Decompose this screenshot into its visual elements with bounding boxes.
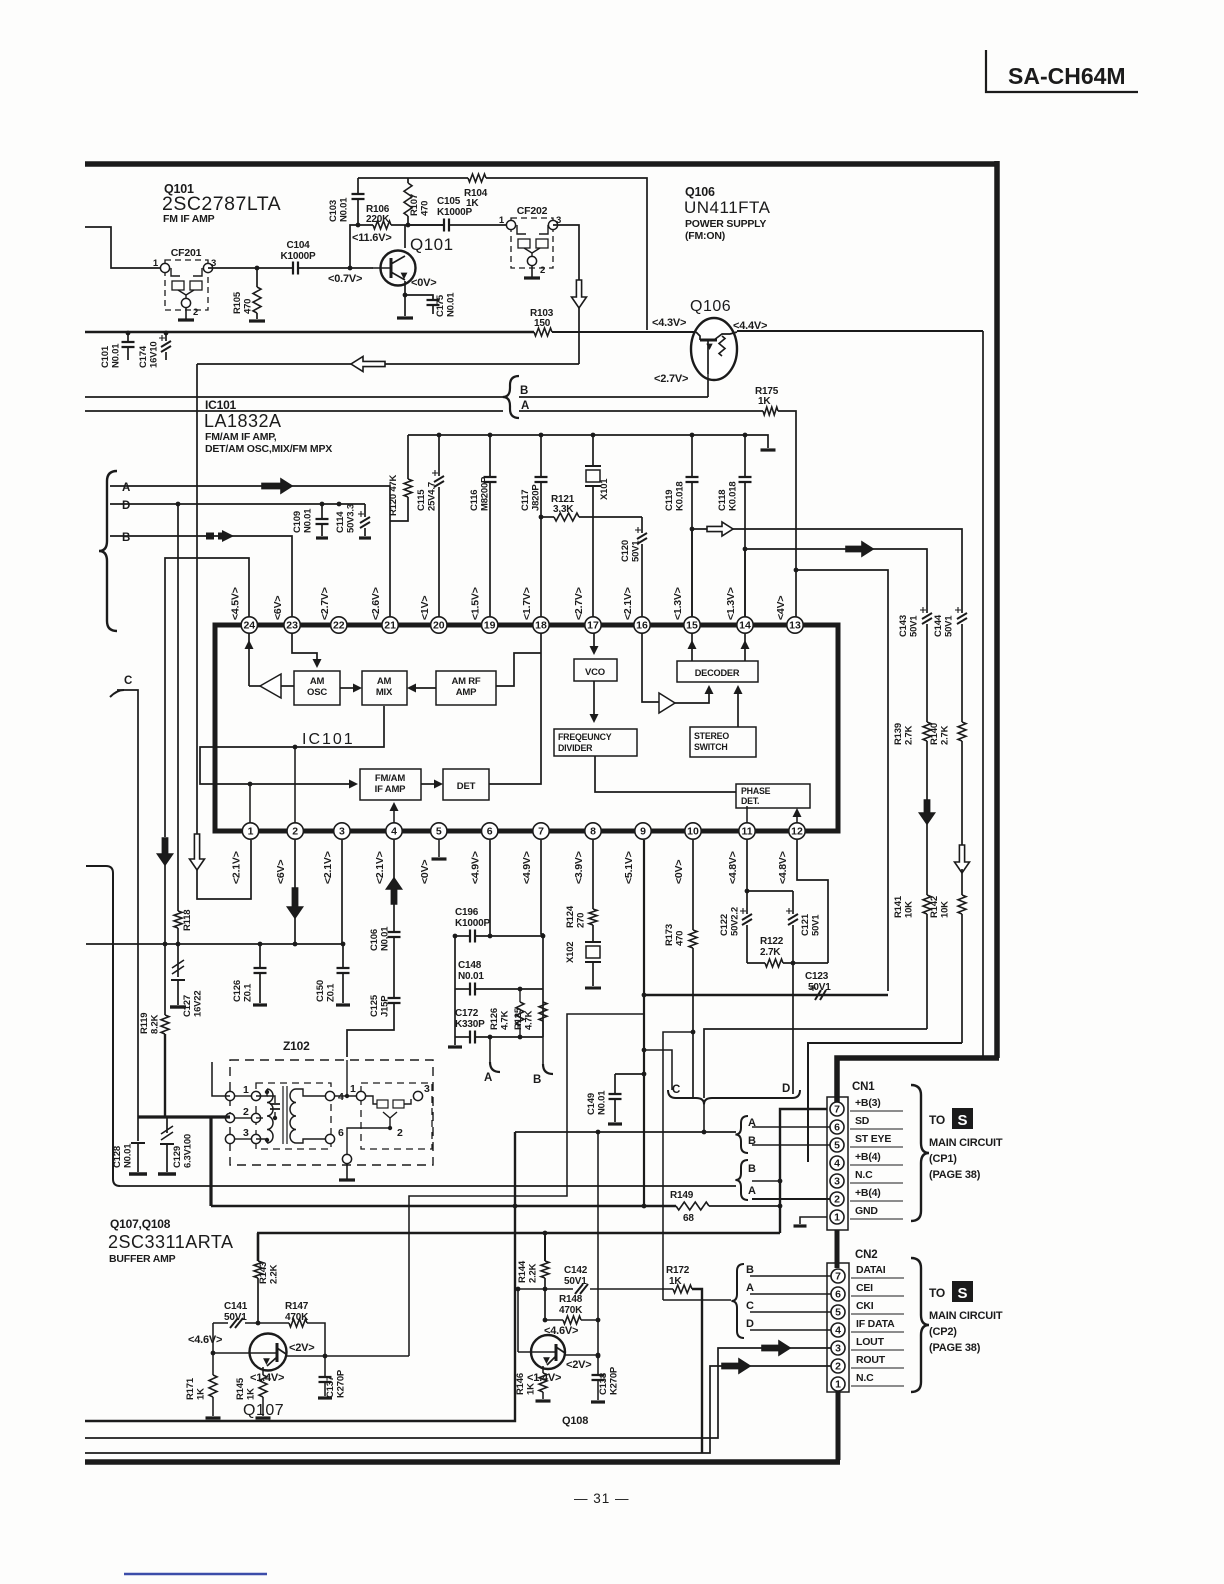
svg-text:<4.6V>: <4.6V> bbox=[188, 1334, 222, 1346]
svg-text:C148: C148 bbox=[458, 960, 482, 971]
svg-text:A: A bbox=[748, 1185, 756, 1197]
wire line A right bbox=[519, 410, 763, 412]
capacitor C125 bbox=[347, 994, 401, 1057]
ic pin 21 bbox=[382, 617, 398, 633]
svg-text:<1.4V>: <1.4V> bbox=[250, 1372, 284, 1384]
wire AM MIX to pin2 bbox=[294, 747, 296, 823]
label pin 9 voltage bbox=[623, 851, 635, 884]
label page number bbox=[574, 1491, 630, 1506]
svg-text:4: 4 bbox=[338, 1091, 344, 1103]
svg-text:50V1: 50V1 bbox=[811, 914, 822, 936]
svg-text:<2.6V>: <2.6V> bbox=[370, 587, 382, 620]
brace B A bbox=[503, 376, 519, 418]
svg-text:FM/AM IF AMP,: FM/AM IF AMP, bbox=[205, 431, 277, 443]
ic pin 10 bbox=[685, 823, 701, 839]
svg-text:C: C bbox=[124, 675, 132, 687]
capacitor C138 bbox=[591, 1354, 620, 1402]
label pin 11 voltage bbox=[727, 851, 739, 884]
svg-text:<2.1V>: <2.1V> bbox=[622, 587, 634, 620]
svg-text:Q106: Q106 bbox=[690, 298, 731, 315]
transformer Z102 label bbox=[283, 1039, 310, 1053]
transistor Q107 bbox=[213, 1334, 287, 1371]
label TO S 1 bbox=[929, 1108, 973, 1129]
svg-text:R120 47K: R120 47K bbox=[388, 474, 399, 516]
svg-text:6: 6 bbox=[834, 1122, 840, 1134]
wire R175 down to pin13 node bbox=[778, 411, 796, 570]
svg-text:D: D bbox=[782, 1083, 790, 1095]
resistor R173 bbox=[664, 924, 697, 948]
svg-text:CF202: CF202 bbox=[517, 205, 548, 217]
label pin 14 voltage bbox=[725, 587, 737, 620]
wire CN1 B line bbox=[752, 1144, 830, 1146]
decor blue underline bbox=[124, 1573, 267, 1575]
svg-text:TO: TO bbox=[929, 1113, 945, 1127]
svg-text:UN411FTA: UN411FTA bbox=[684, 198, 771, 217]
svg-text:CN1: CN1 bbox=[852, 1081, 875, 1093]
resistor R171 bbox=[185, 1323, 221, 1418]
svg-text:<0V>: <0V> bbox=[419, 860, 431, 884]
svg-text:<1.5V>: <1.5V> bbox=[470, 587, 482, 620]
resistor R122 bbox=[747, 936, 828, 967]
label pin 10 voltage bbox=[673, 860, 685, 884]
svg-text:<1.7V>: <1.7V> bbox=[521, 587, 533, 620]
svg-text:K1000P: K1000P bbox=[455, 918, 490, 929]
wire VCO to freq divider bbox=[590, 681, 599, 723]
ic pin 17 bbox=[585, 617, 601, 633]
connector CN2 box bbox=[827, 1263, 849, 1392]
wire line B2 bbox=[110, 530, 292, 617]
svg-text:CF201: CF201 bbox=[171, 247, 202, 259]
svg-text:<4.5V>: <4.5V> bbox=[229, 587, 241, 620]
svg-text:(CP1): (CP1) bbox=[929, 1153, 957, 1165]
resistor R141 bbox=[893, 895, 931, 1029]
wire CN1 CN2 link bbox=[835, 1230, 840, 1268]
block STEREO SWITCH bbox=[690, 727, 756, 757]
svg-text:N0.01: N0.01 bbox=[303, 508, 314, 533]
label 4.3V bbox=[652, 317, 686, 329]
svg-text:N0.01: N0.01 bbox=[458, 971, 484, 982]
svg-text:FM/AM: FM/AM bbox=[375, 773, 405, 784]
block AM OSC bbox=[281, 671, 340, 705]
label CN1 +B(3) bbox=[850, 1097, 903, 1111]
brace CN1 AB1 bbox=[735, 1116, 756, 1153]
svg-text:ST EYE: ST EYE bbox=[855, 1133, 891, 1145]
svg-text:15: 15 bbox=[686, 620, 698, 632]
svg-text:C109: C109 bbox=[292, 511, 303, 533]
arrow pin24 line down bbox=[158, 838, 173, 865]
ic pin 11 bbox=[739, 823, 755, 839]
label Q107 2V bbox=[289, 1342, 315, 1354]
label MAIN CIRCUIT 2 bbox=[929, 1310, 1003, 1322]
transformer Z102 secondary box bbox=[361, 1083, 432, 1149]
wire C104 to Q101 base bbox=[298, 266, 373, 271]
wire emitter branch down bbox=[982, 331, 984, 1058]
label Q101 bbox=[410, 235, 454, 254]
svg-text:2: 2 bbox=[397, 1127, 403, 1139]
svg-text:Z102: Z102 bbox=[283, 1039, 310, 1053]
resistor R124 bbox=[565, 905, 597, 928]
transformer Z102 coil1 bbox=[256, 1086, 287, 1144]
svg-text:14: 14 bbox=[739, 620, 751, 632]
label Q107 bbox=[243, 1402, 284, 1419]
capacitor C101 bbox=[100, 331, 135, 368]
svg-text:4.7K: 4.7K bbox=[524, 1010, 535, 1030]
wire pin10 branch bbox=[663, 1032, 693, 1300]
label CN1 ST EYE bbox=[850, 1133, 903, 1147]
wire top heavy border bbox=[85, 161, 997, 167]
svg-text:<4.8V>: <4.8V> bbox=[727, 851, 739, 884]
label pin 2 voltage bbox=[275, 860, 287, 884]
capacitor C118 bbox=[717, 435, 752, 617]
wire C hook up bbox=[642, 1048, 672, 1090]
svg-text:2.2K: 2.2K bbox=[528, 1263, 539, 1283]
label 4.4V bbox=[733, 320, 767, 332]
svg-text:(PAGE 38): (PAGE 38) bbox=[929, 1169, 981, 1181]
svg-text:R171: R171 bbox=[185, 1377, 196, 1400]
svg-text:D: D bbox=[746, 1318, 754, 1330]
capacitor C142 bbox=[518, 1265, 663, 1294]
crystal X101 bbox=[585, 435, 610, 617]
svg-text:2.7K: 2.7K bbox=[940, 725, 951, 745]
wire Q106 base down bbox=[707, 380, 709, 397]
svg-text:10: 10 bbox=[687, 826, 699, 838]
svg-text:CEI: CEI bbox=[856, 1282, 873, 1294]
ground CF202 pin2 bbox=[524, 266, 540, 278]
svg-text:3: 3 bbox=[339, 826, 345, 838]
connector CN1 pin 1 bbox=[830, 1210, 844, 1224]
svg-text:3.3K: 3.3K bbox=[553, 504, 574, 515]
transformer Z102 coil2 bbox=[290, 1089, 344, 1144]
resistor R105 bbox=[232, 268, 265, 321]
wire DET right bbox=[489, 633, 541, 784]
svg-text:IC101: IC101 bbox=[205, 398, 237, 412]
capacitor C103 bbox=[328, 178, 365, 225]
wire pin11 down bbox=[745, 840, 750, 893]
svg-text:50V1: 50V1 bbox=[808, 982, 831, 993]
svg-text:C150: C150 bbox=[315, 980, 326, 1002]
svg-text:AMP: AMP bbox=[456, 687, 477, 698]
svg-text:C149: C149 bbox=[586, 1093, 597, 1115]
svg-text:C174: C174 bbox=[138, 345, 149, 368]
wire line A bbox=[110, 479, 390, 617]
capacitor C117 bbox=[520, 435, 548, 617]
svg-text:50V1: 50V1 bbox=[224, 1312, 247, 1323]
svg-text:50V1: 50V1 bbox=[909, 615, 920, 637]
wire pin11 to phase det bbox=[746, 806, 748, 823]
svg-text:DATAI: DATAI bbox=[856, 1264, 886, 1276]
wire base bias bbox=[350, 225, 373, 268]
svg-text:<11.6V>: <11.6V> bbox=[352, 232, 392, 244]
svg-text:SA-CH64M: SA-CH64M bbox=[1008, 63, 1126, 89]
svg-text:2: 2 bbox=[540, 265, 545, 276]
svg-text:C116: C116 bbox=[469, 490, 480, 511]
capacitor C144 bbox=[933, 607, 967, 722]
wire pin9 down bbox=[642, 840, 647, 1208]
wire ROUT feed bbox=[85, 1366, 831, 1453]
transistor Q101 header part bbox=[162, 193, 281, 215]
svg-text:R147: R147 bbox=[285, 1301, 309, 1312]
wire pin12 jog bbox=[797, 840, 828, 963]
svg-text:MAIN CIRCUIT: MAIN CIRCUIT bbox=[929, 1137, 1003, 1149]
capacitor C149 bbox=[586, 1074, 622, 1124]
arrow signal down bbox=[572, 280, 587, 308]
block PHASE DET bbox=[736, 784, 810, 808]
ic pin 19 bbox=[482, 617, 498, 633]
wire R172 to ROUT col bbox=[692, 1289, 702, 1453]
svg-text:<2.7V>: <2.7V> bbox=[654, 373, 688, 385]
connector CN2 pin 4 bbox=[831, 1323, 845, 1337]
svg-text:1K: 1K bbox=[526, 1383, 537, 1395]
resistor R172 bbox=[663, 1265, 692, 1293]
svg-text:68: 68 bbox=[683, 1213, 694, 1224]
svg-text:R107: R107 bbox=[409, 194, 420, 216]
svg-text:C129: C129 bbox=[172, 1146, 183, 1168]
svg-text:N0.01: N0.01 bbox=[446, 292, 457, 317]
resistor R146 bbox=[515, 1366, 551, 1401]
wire freq divider to phase det bbox=[595, 756, 736, 792]
ic pin 7 bbox=[533, 823, 549, 839]
label pin 18 voltage bbox=[521, 587, 533, 620]
ic IC101 header fn1 bbox=[205, 431, 277, 443]
wire line B right bbox=[519, 396, 708, 398]
capacitor C122 bbox=[719, 891, 752, 963]
wire pin6 down bbox=[489, 840, 491, 936]
resistor R148 bbox=[545, 1294, 600, 1324]
svg-text:2.7K: 2.7K bbox=[760, 947, 781, 958]
resistor R126 bbox=[489, 987, 524, 1040]
wire right heavy border bbox=[994, 161, 1000, 1058]
resistor R142 bbox=[929, 895, 966, 1043]
transistor Q106 header mode bbox=[685, 230, 725, 242]
svg-text:6: 6 bbox=[338, 1127, 344, 1139]
svg-text:C141: C141 bbox=[224, 1301, 248, 1312]
svg-text:R119: R119 bbox=[139, 1013, 150, 1034]
svg-text:1K: 1K bbox=[246, 1388, 257, 1400]
svg-text:16: 16 bbox=[636, 620, 648, 632]
wire pin4 to IF AMP bbox=[390, 802, 399, 823]
svg-text:7: 7 bbox=[835, 1271, 841, 1283]
transistor Q106 header part bbox=[684, 198, 771, 217]
svg-text:C143: C143 bbox=[898, 615, 909, 637]
wire IF AMP to DET bbox=[421, 780, 443, 789]
capacitor C121 bbox=[786, 891, 822, 963]
ic pin 14 bbox=[737, 617, 753, 633]
wire feed R143 R144 bbox=[257, 1231, 780, 1236]
svg-text:FM IF AMP: FM IF AMP bbox=[163, 213, 215, 225]
svg-text:X101: X101 bbox=[599, 478, 610, 500]
ic pin 2 bbox=[287, 823, 303, 839]
transistor Q107 Q108 header fn bbox=[109, 1253, 176, 1265]
resistor R175 bbox=[755, 386, 779, 415]
label pin 1 voltage bbox=[231, 851, 243, 884]
label pin 13 voltage bbox=[775, 596, 787, 620]
connector CN2 pin 5 bbox=[831, 1305, 845, 1319]
wire decoder to pin14 bbox=[741, 633, 750, 661]
capacitor C196 bbox=[453, 907, 546, 943]
capacitor C172 bbox=[455, 1008, 543, 1044]
label Q108 2V bbox=[566, 1359, 592, 1371]
wire gnd rail bbox=[86, 942, 345, 947]
svg-text:+B(3): +B(3) bbox=[855, 1097, 881, 1109]
label pin 15 voltage bbox=[672, 587, 684, 620]
svg-text:POWER SUPPLY: POWER SUPPLY bbox=[685, 218, 766, 230]
transformer Z102 pins left bbox=[225, 1084, 260, 1144]
svg-text:B: B bbox=[520, 385, 528, 397]
wire Z102 pin1 out bbox=[212, 1062, 230, 1096]
capacitor C104 bbox=[281, 240, 316, 275]
capacitor C114 bbox=[335, 504, 371, 538]
svg-text:<4V>: <4V> bbox=[775, 596, 787, 620]
svg-text:SWITCH: SWITCH bbox=[694, 742, 728, 752]
svg-text:K1000P: K1000P bbox=[437, 207, 472, 218]
ic pin 1 bbox=[242, 823, 258, 839]
svg-text:C114: C114 bbox=[335, 511, 346, 533]
wire CN2 feed bbox=[663, 1299, 731, 1301]
ic pin 8 bbox=[585, 823, 601, 839]
svg-text:<1.3V>: <1.3V> bbox=[725, 587, 737, 620]
capacitor C175 bbox=[405, 292, 457, 317]
brace CN1 BA2 bbox=[735, 1160, 756, 1200]
node C label bbox=[124, 675, 132, 687]
label CN2 LOUT bbox=[851, 1336, 904, 1350]
svg-text:R139: R139 bbox=[893, 723, 904, 745]
svg-text:50V1: 50V1 bbox=[944, 615, 955, 637]
resistor R103 bbox=[530, 308, 554, 336]
svg-text:2: 2 bbox=[835, 1361, 841, 1373]
capacitor C174 bbox=[138, 331, 171, 368]
svg-text:N0.01: N0.01 bbox=[380, 926, 391, 951]
capacitor C126 bbox=[232, 944, 267, 1005]
capacitor C148 bbox=[455, 960, 543, 996]
svg-text:MAIN CIRCUIT: MAIN CIRCUIT bbox=[929, 1310, 1003, 1322]
svg-text:CN2: CN2 bbox=[855, 1249, 877, 1261]
svg-text:220K: 220K bbox=[366, 214, 390, 225]
svg-text:R126: R126 bbox=[489, 1008, 500, 1030]
wire pin14 up bbox=[743, 547, 927, 617]
label pin 19 voltage bbox=[470, 587, 482, 620]
svg-text:470: 470 bbox=[420, 201, 431, 216]
wire LOUT feed bbox=[85, 1348, 831, 1438]
resistor R118 bbox=[174, 910, 193, 931]
svg-text:R124: R124 bbox=[565, 905, 576, 928]
wire line D bbox=[110, 502, 365, 507]
label pin 6 voltage bbox=[470, 851, 482, 884]
svg-text:MIX: MIX bbox=[376, 687, 393, 698]
svg-text:10K: 10K bbox=[940, 901, 951, 918]
resistor R125 bbox=[513, 1002, 547, 1037]
label CN1 +B(4) bbox=[850, 1187, 903, 1201]
svg-text:+B(4): +B(4) bbox=[855, 1187, 881, 1199]
ground Q101 emitter bbox=[397, 316, 413, 319]
wire AM OSC to AM MIX bbox=[340, 684, 362, 693]
wire CF202 out down bbox=[553, 225, 579, 364]
node A label bbox=[122, 482, 130, 494]
svg-text:<2.1V>: <2.1V> bbox=[231, 851, 243, 884]
svg-text:Q108: Q108 bbox=[562, 1415, 588, 1427]
svg-text:AM RF: AM RF bbox=[451, 676, 480, 687]
wire CN2 A line bbox=[750, 1293, 831, 1295]
label Q107 14V bbox=[250, 1372, 284, 1384]
svg-text:<3.9V>: <3.9V> bbox=[573, 851, 585, 884]
svg-text:N0.01: N0.01 bbox=[339, 197, 350, 222]
svg-text:Z0.1: Z0.1 bbox=[326, 983, 337, 1002]
model label SA-CH64M box bbox=[986, 50, 1138, 92]
transistor Q106 bbox=[691, 318, 737, 380]
wire Vcc feed bbox=[358, 177, 468, 179]
svg-text:ROUT: ROUT bbox=[856, 1354, 886, 1366]
wire pin10 down bbox=[692, 840, 694, 930]
wire AM RF AMP to AM MIX bbox=[407, 684, 436, 693]
svg-text:N0.01: N0.01 bbox=[111, 343, 122, 368]
connector CN2 pin 3 bbox=[831, 1341, 845, 1355]
svg-text:R143: R143 bbox=[258, 1262, 269, 1284]
svg-text:270: 270 bbox=[576, 913, 587, 928]
svg-text:9: 9 bbox=[640, 826, 646, 838]
svg-text:13: 13 bbox=[789, 620, 801, 632]
svg-text:2: 2 bbox=[834, 1194, 840, 1206]
svg-text:6: 6 bbox=[487, 826, 493, 838]
svg-text:J15P: J15P bbox=[380, 995, 391, 1017]
node C2 label bbox=[672, 1084, 680, 1096]
svg-text:K1000P: K1000P bbox=[281, 251, 316, 262]
capacitor C123 bbox=[805, 971, 831, 1000]
transformer Z102 sec bbox=[334, 1060, 430, 1164]
wire R119 col upper bbox=[163, 861, 168, 1015]
capacitor C115 bbox=[416, 435, 444, 617]
svg-text:21: 21 bbox=[384, 620, 396, 632]
brace CN2 BACD bbox=[731, 1264, 754, 1338]
ic pin 24 bbox=[241, 617, 257, 633]
label pin 17 voltage bbox=[573, 587, 585, 620]
connector CN1 pin 3 bbox=[830, 1174, 844, 1188]
label pin 23 voltage bbox=[272, 596, 284, 620]
wire block down to D bbox=[792, 963, 794, 1094]
wire pin13 node bbox=[794, 568, 888, 991]
svg-text:<2.7V>: <2.7V> bbox=[573, 587, 585, 620]
resistor R143 bbox=[254, 1233, 280, 1323]
ic IC101 body bbox=[215, 625, 838, 831]
svg-text:1K: 1K bbox=[758, 396, 771, 407]
wire CF201 to C104 bbox=[208, 266, 293, 271]
label pin 20 voltage bbox=[419, 596, 431, 620]
wire heavy border jog to CN1 bbox=[837, 1058, 999, 1109]
capacitor C116 bbox=[469, 435, 497, 617]
wire cap bus bbox=[408, 433, 760, 438]
label Q106 bbox=[690, 298, 731, 315]
svg-text:2SC2787LTA: 2SC2787LTA bbox=[162, 193, 281, 215]
connector CN1 label bbox=[852, 1081, 875, 1093]
label CP1 bbox=[929, 1153, 957, 1165]
wire Q101 emitter bbox=[403, 281, 408, 316]
svg-text:25V4.7: 25V4.7 bbox=[427, 482, 438, 511]
wire R173 to brace bbox=[691, 948, 696, 1097]
svg-text:150: 150 bbox=[534, 318, 551, 329]
ic pin 4 bbox=[386, 823, 402, 839]
svg-text:5: 5 bbox=[835, 1307, 841, 1319]
svg-text:50V3.3: 50V3.3 bbox=[346, 504, 357, 533]
svg-text:IF AMP: IF AMP bbox=[375, 784, 407, 795]
svg-text:C122: C122 bbox=[719, 914, 730, 936]
svg-text:3: 3 bbox=[835, 1343, 841, 1355]
ic pin 18 bbox=[533, 617, 549, 633]
resistor R104 bbox=[464, 174, 488, 209]
svg-text:R148: R148 bbox=[559, 1294, 583, 1305]
wire CN2 D line bbox=[750, 1329, 831, 1331]
connector CN1 pin 4 bbox=[830, 1156, 844, 1170]
svg-text:Q107,Q108: Q107,Q108 bbox=[110, 1217, 171, 1231]
svg-text:50V2.2: 50V2.2 bbox=[730, 907, 741, 936]
amp triangle am osc bbox=[245, 633, 282, 698]
